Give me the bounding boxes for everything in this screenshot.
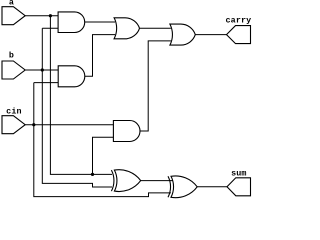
svg-text:sum: sum bbox=[231, 169, 246, 179]
svg-text:cin: cin bbox=[6, 107, 21, 117]
svg-text:carry: carry bbox=[226, 15, 252, 25]
svg-text:a: a bbox=[9, 0, 14, 7]
svg-text:b: b bbox=[9, 51, 14, 61]
